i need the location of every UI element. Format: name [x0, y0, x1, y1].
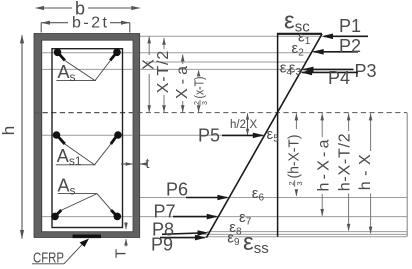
arrow P1 — [324, 35, 368, 37]
steel tube inner face — [42, 40, 133, 232]
arrow P4 — [302, 71, 358, 73]
dimension T — [125, 222, 127, 229]
svg-text:3: 3 — [295, 181, 304, 185]
dimension b — [36, 7, 72, 9]
svg-text:3: 3 — [202, 101, 209, 105]
arrow P8 — [162, 233, 199, 234]
steel tube wall — [34, 34, 140, 238]
row line top rebar / P2 level — [52, 52, 312, 54]
arrow P9 — [160, 237, 205, 239]
stirrup rectangle — [52, 49, 123, 228]
strain diagonal — [206, 34, 322, 238]
dimension 2/3(x-T) — [198, 71, 200, 75]
epsilon sc top bar — [277, 33, 322, 35]
svg-text:h-X: h-X — [357, 154, 374, 190]
rebar dot mid-left — [53, 131, 61, 139]
svg-text:P2: P2 — [339, 36, 361, 56]
arrow P2 — [314, 51, 359, 53]
svg-text:P4: P4 — [328, 68, 350, 88]
rebar dot bottom-right — [114, 213, 122, 221]
svg-text:h-X-T/2: h-X-T/2 — [337, 133, 354, 191]
neutral axis dashed line — [34, 112, 407, 114]
dimension h-X-a — [321, 113, 323, 137]
dimension t — [121, 163, 132, 165]
row line through section (P2 level inside) — [42, 52, 132, 54]
dimension h/2-X — [247, 113, 249, 135]
CFRP strip — [73, 235, 102, 239]
row line epsilon ss lower — [205, 236, 407, 238]
svg-text:P6: P6 — [166, 180, 188, 200]
row line epsilon ss upper — [203, 233, 407, 235]
row line mid rebar / P5 level — [52, 134, 264, 136]
svg-text:T: T — [112, 249, 129, 258]
svg-text:(h-X-T): (h-X-T) — [287, 135, 303, 179]
svg-text:h-X-a: h-X-a — [316, 139, 333, 191]
svg-text:P5: P5 — [198, 126, 220, 146]
svg-text:X-a: X-a — [174, 66, 191, 99]
arrow P5 — [222, 134, 263, 136]
row line through section (P3 level inside) — [42, 68, 132, 70]
dimension h — [21, 35, 23, 238]
arrow P7 — [173, 216, 216, 218]
row line epsilon8 level — [207, 231, 407, 233]
svg-text:h/2: h/2 — [230, 119, 246, 131]
arrow P6 — [186, 197, 227, 199]
svg-text:P1: P1 — [339, 16, 361, 36]
row line P1 level — [133, 35, 322, 37]
svg-text:X: X — [250, 119, 258, 131]
svg-text:(x-T): (x-T) — [192, 77, 207, 99]
dimension X-T/2 — [163, 38, 165, 49]
dimension 2/3(h-X-T) — [295, 113, 297, 129]
svg-text:P7: P7 — [154, 201, 176, 221]
row line P6 level — [134, 197, 407, 199]
dimension b-2t — [41, 22, 68, 24]
dimension X — [148, 37, 150, 56]
rebar dot bottom-left — [51, 213, 59, 221]
svg-text:P9: P9 — [151, 235, 173, 255]
svg-text:P3: P3 — [355, 61, 377, 81]
arrow P3 — [304, 68, 354, 70]
strain axis vertical — [277, 33, 279, 237]
svg-text:X-T/2: X-T/2 — [155, 51, 172, 94]
right border line — [406, 113, 408, 237]
dimension h-X — [370, 113, 372, 151]
rebar dot mid-right — [114, 131, 122, 139]
row line through section (P7 level inside) — [42, 216, 132, 218]
row line through section (P5 level inside) — [42, 134, 132, 136]
dimension X-a — [182, 55, 184, 65]
row line 2/3(x-T) level — [146, 61, 306, 63]
rebar dot top-left — [54, 49, 62, 57]
neutral axis dashed inside section — [34, 112, 140, 114]
svg-text:t: t — [146, 155, 150, 171]
rebar dot top-right — [113, 49, 121, 57]
svg-text:h: h — [0, 126, 18, 135]
dimension h-X-T/2 — [348, 113, 350, 131]
row line bottom rebar / P7 level — [52, 216, 407, 218]
row line P3 level — [34, 68, 352, 70]
